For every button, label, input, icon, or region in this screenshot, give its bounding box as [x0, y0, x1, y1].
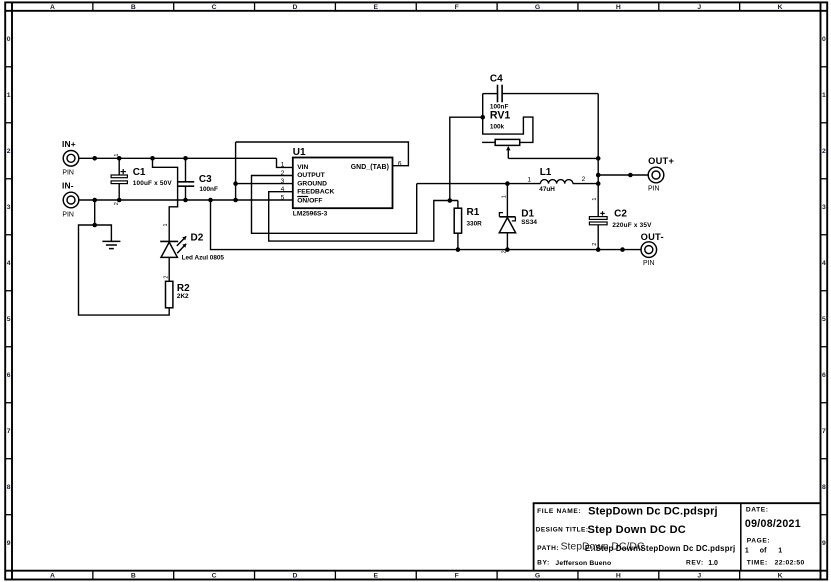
svg-text:PIN: PIN [648, 186, 660, 193]
svg-text:IN-: IN- [62, 181, 74, 191]
svg-text:7: 7 [822, 428, 826, 435]
svg-text:9: 9 [7, 540, 11, 547]
svg-text:1: 1 [114, 154, 120, 157]
svg-text:C4: C4 [490, 74, 503, 85]
svg-text:OUT-: OUT- [641, 232, 664, 242]
svg-text:GND_(TAB): GND_(TAB) [351, 164, 389, 171]
svg-text:D: D [293, 573, 298, 580]
svg-text:VIN: VIN [297, 164, 308, 171]
svg-text:B: B [131, 4, 136, 11]
svg-text:100nF: 100nF [199, 186, 218, 193]
svg-text:E: E [374, 4, 379, 11]
svg-text:Jefferson Bueno: Jefferson Bueno [555, 560, 611, 567]
svg-text:G: G [535, 4, 540, 11]
svg-text:D: D [293, 4, 298, 11]
svg-text:E:\Step Down\StepDown Dc DC.pd: E:\Step Down\StepDown Dc DC.pdsprj [585, 544, 736, 553]
svg-text:1: 1 [592, 198, 598, 201]
svg-text:A: A [50, 573, 55, 580]
svg-text:22:02:50: 22:02:50 [775, 559, 805, 566]
svg-text:PATH:: PATH: [537, 545, 559, 552]
svg-text:OUTPUT: OUTPUT [297, 172, 325, 179]
svg-text:C: C [212, 4, 217, 11]
svg-text:4: 4 [822, 260, 826, 267]
svg-text:1: 1 [822, 92, 826, 99]
svg-text:8: 8 [822, 484, 826, 491]
svg-text:BY:: BY: [537, 560, 550, 567]
svg-text:4: 4 [281, 186, 285, 193]
svg-text:PIN: PIN [62, 170, 74, 177]
svg-text:5: 5 [822, 316, 826, 323]
svg-text:2K2: 2K2 [177, 293, 189, 300]
svg-text:ON/OFF: ON/OFF [297, 198, 322, 205]
svg-text:2: 2 [822, 148, 826, 155]
svg-text:2: 2 [164, 276, 170, 279]
svg-text:5: 5 [7, 316, 11, 323]
svg-text:PIN: PIN [62, 211, 74, 218]
svg-text:1: 1 [163, 223, 169, 226]
svg-text:47uH: 47uH [539, 186, 555, 193]
svg-text:09/08/2021: 09/08/2021 [745, 518, 801, 530]
svg-text:2: 2 [281, 170, 285, 177]
svg-text:GROUND: GROUND [297, 181, 327, 188]
svg-text:J: J [697, 4, 701, 11]
svg-text:5: 5 [281, 194, 285, 201]
svg-text:K: K [778, 4, 783, 11]
svg-text:IN+: IN+ [62, 139, 76, 149]
svg-text:2: 2 [582, 176, 586, 183]
svg-text:PIN: PIN [643, 260, 655, 267]
svg-text:8: 8 [7, 484, 11, 491]
svg-text:Step Down DC DC: Step Down DC DC [588, 524, 686, 536]
svg-text:F: F [455, 4, 459, 11]
svg-text:2: 2 [501, 250, 507, 253]
svg-text:K: K [778, 573, 783, 580]
svg-text:1: 1 [502, 195, 508, 198]
svg-text:D2: D2 [191, 232, 204, 243]
svg-text:C3: C3 [199, 174, 212, 185]
svg-text:R1: R1 [467, 207, 480, 218]
svg-text:1: 1 [778, 548, 782, 555]
svg-text:4: 4 [7, 260, 11, 267]
svg-text:2: 2 [7, 148, 11, 155]
svg-text:E: E [374, 573, 379, 580]
svg-text:FEEDBACK: FEEDBACK [297, 189, 334, 196]
svg-text:C: C [212, 573, 217, 580]
svg-text:Led Azul 0805: Led Azul 0805 [182, 254, 225, 261]
svg-text:DATE:: DATE: [746, 507, 769, 514]
svg-text:1: 1 [527, 177, 531, 184]
svg-text:B: B [131, 573, 136, 580]
svg-text:J: J [697, 573, 701, 580]
svg-text:PAGE:: PAGE: [747, 538, 770, 545]
svg-text:6: 6 [7, 372, 11, 379]
svg-text:1: 1 [281, 162, 285, 169]
svg-text:OUT+: OUT+ [648, 156, 674, 166]
svg-text:L1: L1 [540, 167, 552, 178]
svg-text:D1: D1 [521, 208, 534, 219]
svg-text:1: 1 [745, 548, 749, 555]
svg-text:G: G [535, 573, 540, 580]
svg-text:RV1: RV1 [490, 110, 511, 122]
svg-text:of: of [760, 548, 767, 555]
svg-text:StepDown Dc DC.pdsprj: StepDown Dc DC.pdsprj [588, 505, 718, 517]
svg-text:100k: 100k [490, 123, 505, 130]
svg-text:0: 0 [7, 36, 11, 43]
svg-text:6: 6 [398, 160, 402, 167]
svg-text:7: 7 [7, 428, 11, 435]
svg-text:1: 1 [7, 92, 11, 99]
svg-text:2: 2 [114, 202, 120, 205]
svg-text:TIME:: TIME: [747, 559, 768, 566]
svg-text:C1: C1 [133, 167, 146, 178]
svg-text:3: 3 [281, 178, 285, 185]
svg-text:DESIGN TITLE:: DESIGN TITLE: [536, 526, 589, 533]
svg-text:C2: C2 [614, 209, 627, 220]
svg-text:SS34: SS34 [521, 219, 537, 226]
svg-text:1.0: 1.0 [708, 560, 718, 567]
svg-text:9: 9 [822, 540, 826, 547]
svg-text:2: 2 [592, 243, 598, 246]
svg-text:H: H [616, 573, 621, 580]
svg-text:3: 3 [822, 204, 826, 211]
svg-text:330R: 330R [467, 220, 483, 227]
svg-text:U1: U1 [293, 147, 306, 158]
svg-text:220uF x 35V: 220uF x 35V [612, 222, 652, 229]
svg-text:6: 6 [822, 372, 826, 379]
svg-text:A: A [50, 4, 55, 11]
svg-text:0: 0 [822, 36, 826, 43]
svg-text:100uF x 50V: 100uF x 50V [133, 180, 173, 187]
svg-text:FILE NAME:: FILE NAME: [537, 508, 581, 515]
svg-text:LM2596S-3: LM2596S-3 [293, 211, 328, 218]
svg-text:F: F [455, 573, 459, 580]
svg-text:3: 3 [7, 204, 11, 211]
svg-text:REV:: REV: [686, 560, 704, 567]
svg-text:H: H [616, 4, 621, 11]
